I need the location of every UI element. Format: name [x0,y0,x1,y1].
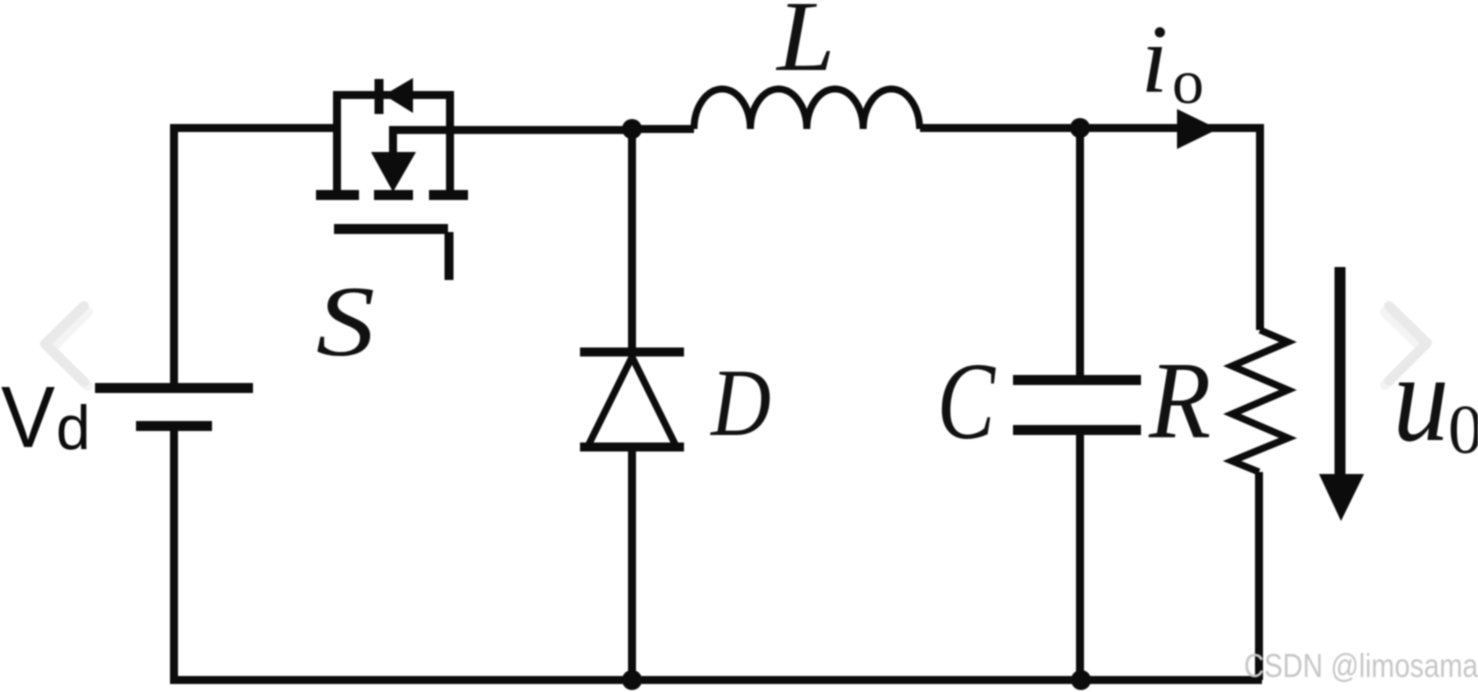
inductor L: right lead wire [920,124,1084,132]
svg-text:CSDN @limosama: CSDN @limosama [1244,647,1478,684]
capacitor C: bottom plate [1013,425,1141,435]
inductor L: left lead wire [628,125,694,133]
svg-text:u: u [1393,330,1449,468]
wire: switch to node A [389,126,636,134]
svg-text:R: R [1148,339,1211,461]
diode D: lower vertical wire to bottom rail [628,447,636,680]
transistor S: gate lead bending down [445,232,454,280]
svg-text:d: d [56,394,90,463]
svg-text:D: D [709,349,771,456]
resistor R: zigzag body [1232,330,1288,472]
transistor S: gate bar [334,224,448,234]
svg-text:C: C [937,340,996,462]
arrow u0: output voltage arrow line [1335,267,1346,480]
node: capacitor bottom junction dot [1071,670,1091,690]
arrow u0: arrowhead [1319,474,1364,521]
transistor S: channel contact left [316,190,359,200]
arrowhead of output current i_o [1177,109,1218,149]
battery Vd positive plate [95,383,253,393]
transistor S: channel contact right [429,190,468,200]
transistor S: body-diode cathode bar [375,79,384,114]
carousel arrow left shadow [51,312,88,386]
carousel arrow right (light chevron) [1389,306,1427,381]
svg-text:i: i [1141,6,1168,113]
carousel arrow left (light chevron) [45,306,84,382]
svg-text:S: S [316,265,375,377]
wire: left vertical from top corner to battery positive plate [170,124,178,384]
transistor S: left vertical stub (drain lead) [333,91,341,195]
resistor R: bottom lead vertical [1255,472,1263,680]
resistor R: top lead vertical [1256,124,1264,330]
node: diode bottom junction dot [622,670,642,690]
inductor L: winding arcs [694,89,920,129]
transistor S: channel contact middle [374,190,413,200]
capacitor C: top plate [1013,375,1141,385]
capacitor C: upper vertical wire from node B [1076,124,1084,376]
diode D: cathode bar [580,348,684,357]
battery Vd negative plate [136,421,212,431]
transistor S: right vertical stub (source lead) [446,91,454,195]
wire: top-left horizontal from source to switch [170,124,341,132]
transistor S: middle vertical (source-body link) [389,126,397,156]
capacitor C: lower vertical wire to bottom rail [1076,435,1084,680]
svg-text:V: V [1,369,55,466]
svg-text:o: o [1172,46,1204,117]
diode D: triangle outline [588,357,676,446]
wire: left vertical from battery to bottom rail [170,431,178,680]
diode D: anode bar [580,443,684,452]
wire: output top from node B to right corner [1076,124,1260,132]
diode D: upper vertical wire from node A [628,126,636,352]
transistor S: body-diode top link wire [333,91,446,99]
node A junction dot [622,119,642,139]
svg-text:L: L [775,0,835,92]
transistor S: body-diode filled triangle (pointing left) [384,78,413,113]
carousel arrow right shadow [1385,312,1422,385]
svg-text:0: 0 [1448,392,1478,469]
transistor S: body arrow filled triangle (pointing down) [371,152,416,192]
node B junction dot [1070,118,1090,138]
wire: bottom rail [170,676,1262,684]
